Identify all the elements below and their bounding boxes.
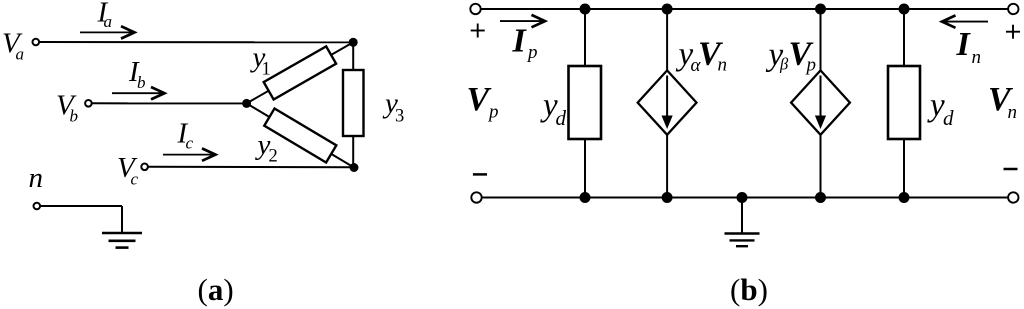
current arrow Ip	[500, 20, 544, 22]
terminal Vb	[85, 100, 92, 107]
wire top node3 to source2	[820, 9, 822, 70]
svg-text:b: b	[137, 73, 146, 92]
current arrow Ia	[80, 31, 134, 33]
terminal bottom-right (b)	[1008, 192, 1018, 202]
svg-text:a: a	[16, 45, 25, 64]
terminal top-right (b)	[1008, 4, 1018, 14]
resistor yd left (box)	[569, 66, 602, 139]
svg-text:(a): (a)	[198, 272, 234, 307]
resistor y2 (box)	[264, 108, 336, 162]
terminal Va	[33, 39, 40, 46]
wire source2 to bottom node3	[820, 135, 822, 198]
resistor y3 (box)	[343, 70, 364, 136]
wire source1 to bottom node2	[666, 135, 668, 198]
top rail	[481, 8, 1008, 10]
svg-text:p: p	[805, 55, 817, 76]
wire top node4 to yd right	[903, 9, 905, 66]
svg-text:I: I	[512, 23, 528, 60]
node bottom 3	[815, 192, 826, 203]
svg-text:d: d	[943, 106, 954, 130]
wire top node2 to source1	[666, 9, 668, 70]
terminal n	[34, 203, 41, 210]
svg-text:p: p	[487, 102, 499, 123]
node bottom-right	[350, 163, 359, 172]
svg-text:I: I	[956, 26, 972, 63]
ground (figure a)	[102, 232, 142, 235]
minus sign right	[1004, 168, 1018, 171]
plus sign right	[1006, 31, 1020, 33]
svg-text:(b): (b)	[730, 272, 768, 307]
svg-text:p: p	[526, 42, 538, 63]
node bottom center	[737, 192, 748, 203]
node top 1	[580, 4, 591, 15]
svg-text:β: β	[779, 55, 789, 74]
svg-text:n: n	[29, 162, 44, 194]
node top 3	[815, 4, 826, 15]
node top 4	[899, 4, 910, 15]
svg-text:n: n	[1008, 102, 1018, 123]
svg-text:n: n	[718, 54, 728, 75]
terminal n wire	[40, 205, 122, 207]
node bottom 1	[580, 192, 591, 203]
wire Va to top node	[39, 41, 353, 43]
node bottom 2	[662, 192, 673, 203]
svg-text:V: V	[467, 81, 492, 118]
wire top node1 to yd left	[584, 9, 586, 66]
minus sign left	[473, 173, 487, 176]
node top 2	[662, 4, 673, 15]
resistor yd right (box)	[888, 66, 920, 139]
terminal bottom-left (b)	[471, 192, 481, 202]
svg-text:c: c	[186, 134, 194, 153]
dependent source y_beta*Vp (diamond)	[791, 70, 850, 134]
plus sign left	[471, 30, 485, 32]
wire junction to top node (through y1)	[247, 42, 354, 103]
current arrow In	[943, 21, 988, 23]
wire Vb to center junction	[92, 102, 247, 104]
current arrow Ic	[163, 154, 215, 156]
svg-text:c: c	[131, 170, 139, 189]
svg-text:d: d	[556, 106, 567, 130]
ground (figure b)	[741, 198, 743, 234]
node top-right	[349, 38, 358, 47]
svg-text:b: b	[70, 107, 79, 126]
bottom rail	[482, 197, 1008, 199]
wire top node to y3	[352, 42, 354, 70]
svg-text:1: 1	[262, 59, 271, 79]
resistor y1 (box)	[264, 46, 336, 99]
wire junction to bottom node (through y2)	[247, 103, 354, 167]
terminal top-left (b)	[470, 4, 480, 14]
svg-text:a: a	[104, 12, 113, 31]
node center junction	[242, 99, 251, 108]
dependent source y_alpha*Vn (diamond)	[638, 70, 697, 134]
terminal Vc	[141, 164, 148, 171]
svg-text:3: 3	[395, 107, 404, 127]
wire y3 to bottom node	[352, 136, 354, 168]
svg-text:n: n	[972, 47, 982, 68]
current arrow Ib	[112, 92, 164, 94]
wire yd right to bottom node4	[903, 139, 905, 198]
wire Vc to bottom-right node	[148, 166, 354, 169]
svg-text:2: 2	[269, 147, 278, 167]
wire yd left to bottom node1	[584, 139, 586, 198]
node bottom 4	[899, 192, 910, 203]
